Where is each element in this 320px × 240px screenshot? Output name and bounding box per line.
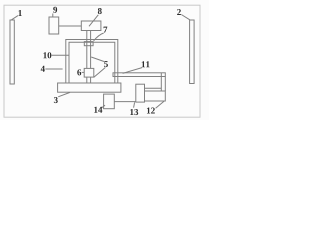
leader line for label 1	[12, 16, 19, 20]
leader line a for label 5	[91, 57, 104, 62]
leader line for label 9	[52, 14, 54, 18]
label 4	[41, 66, 45, 72]
leader line for label 10	[52, 54, 70, 56]
label 14	[94, 107, 102, 113]
stem below box 6 left	[86, 77, 88, 83]
box 6	[84, 68, 94, 77]
hanger inner line	[160, 77, 162, 92]
label 2	[177, 9, 181, 15]
plate 11	[113, 73, 165, 77]
box 8	[81, 21, 101, 31]
box 14	[104, 94, 115, 109]
leader line for label 8	[89, 15, 98, 26]
box 13	[136, 84, 145, 102]
leader line for label 11	[123, 68, 142, 74]
stem below box 6 right	[90, 77, 92, 83]
flange 7	[84, 42, 93, 46]
leader line for label 7	[94, 33, 104, 41]
container inner wall	[69, 42, 115, 83]
wire from box 14 to box 13	[114, 101, 136, 103]
plate 2 (right vertical bar)	[190, 20, 195, 84]
label 10	[43, 52, 51, 58]
label 11	[142, 61, 150, 67]
label 9	[53, 7, 57, 13]
label 6	[77, 69, 81, 75]
stem / shaft right line	[90, 31, 92, 69]
label 8	[98, 8, 102, 14]
box 9	[49, 17, 59, 34]
leader line for label 13	[134, 102, 135, 107]
leader line b for label 5	[94, 68, 106, 78]
base plate 3	[58, 83, 121, 92]
container outer wall 10	[66, 40, 118, 84]
hanger outer line	[164, 77, 166, 92]
leader line for label 2	[181, 15, 190, 20]
label 1	[18, 10, 21, 16]
plate 11 end inner line	[160, 73, 162, 77]
bar 12	[145, 91, 166, 101]
label 3	[54, 97, 58, 103]
connector rail between box 13 and hanger	[145, 87, 162, 89]
leader line for label 12	[156, 101, 164, 108]
plate 1 (left vertical bar)	[10, 20, 14, 84]
leader line for label 6	[82, 71, 85, 73]
label 7	[104, 27, 108, 33]
label 5	[104, 61, 108, 67]
leader line for label 4	[45, 68, 62, 70]
label 12	[147, 108, 155, 114]
leader line for label 3	[58, 92, 70, 96]
label 13	[130, 109, 138, 115]
wire from box 9 to box 8	[59, 25, 82, 27]
stem / shaft left line	[86, 31, 88, 69]
leader line for label 14	[102, 105, 105, 108]
